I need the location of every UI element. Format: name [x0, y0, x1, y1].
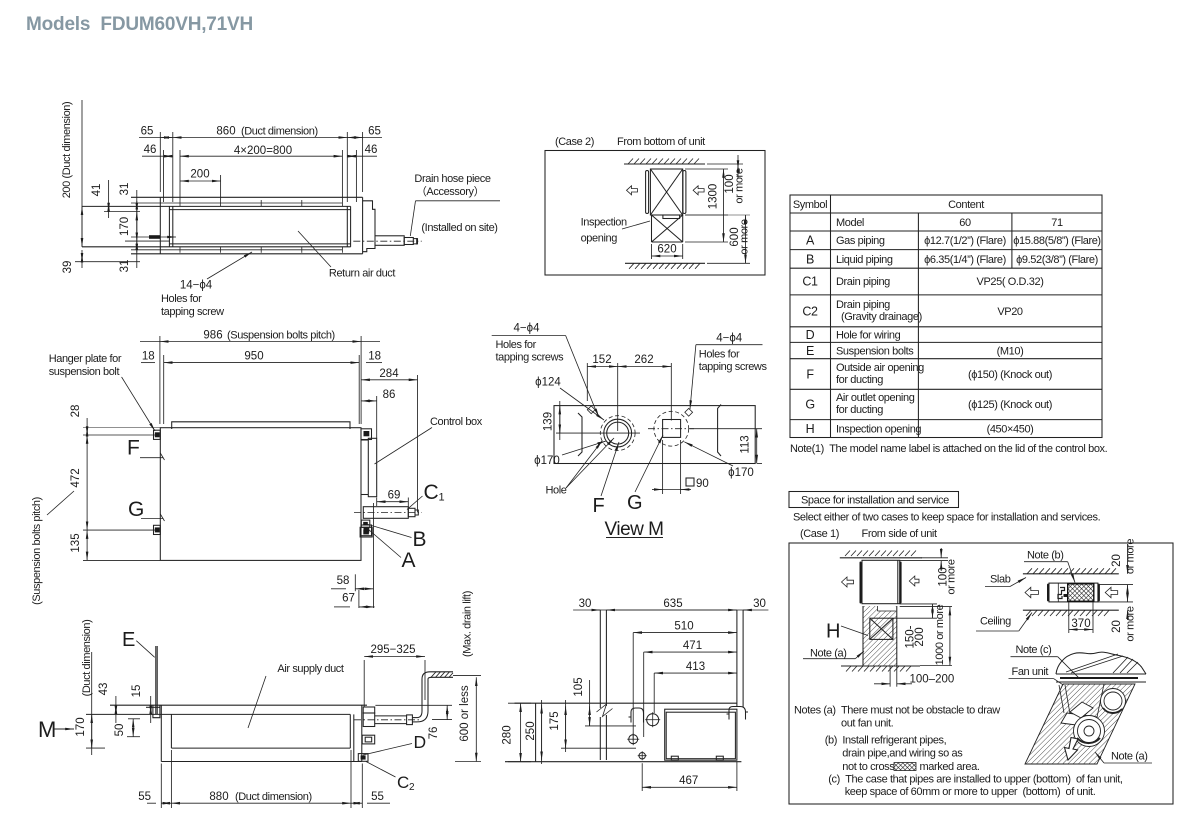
dim 950 and 18|18	[141, 355, 382, 424]
svg-text:50: 50	[114, 724, 126, 737]
svg-text:Content: Content	[948, 199, 984, 211]
svg-text:Hanger plate for: Hanger plate for	[49, 353, 122, 365]
svg-text:65: 65	[141, 126, 154, 138]
svg-text:152: 152	[592, 354, 611, 366]
svg-text:B: B	[806, 253, 814, 267]
svg-text:G: G	[128, 498, 144, 521]
hanger plate lower right	[361, 525, 372, 536]
svg-text:or more: or more	[734, 168, 746, 203]
svg-text:not to cross: not to cross	[842, 761, 895, 773]
svg-text:ϕ6.35(1/4”) (Flare): ϕ6.35(1/4”) (Flare)	[924, 254, 1006, 266]
label square 90	[652, 440, 691, 494]
case1: unit right bracket	[900, 563, 902, 603]
knockout circle small side	[639, 753, 645, 759]
svg-text:From bottom of unit: From bottom of unit	[617, 136, 705, 148]
svg-text:(M10): (M10)	[997, 346, 1024, 358]
suspension bolt E	[156, 646, 157, 714]
svg-text:600 or less: 600 or less	[459, 685, 471, 742]
svg-text:100–200: 100–200	[910, 674, 955, 686]
C1 drain pipe	[363, 507, 418, 519]
dim 113	[690, 429, 762, 464]
svg-text:tapping screws: tapping screws	[496, 352, 565, 364]
A knockout	[360, 527, 372, 537]
svg-text:31: 31	[119, 183, 131, 196]
svg-text:20: 20	[1111, 554, 1123, 567]
svg-text:139: 139	[543, 412, 555, 431]
svg-text:Drain piping: Drain piping	[836, 276, 890, 288]
svg-text:30: 30	[579, 598, 592, 610]
svg-text:E: E	[122, 629, 135, 651]
svg-text:drain pipe,and wiring so as: drain pipe,and wiring so as	[842, 747, 963, 759]
iso unit wavy top	[1056, 652, 1146, 674]
svg-text:（Accessory）: （Accessory）	[416, 185, 484, 198]
unit outline	[86, 705, 367, 761]
right flange step	[363, 201, 375, 252]
hanger bracket bottom view	[146, 705, 160, 718]
dim 67	[334, 503, 375, 608]
svg-text:39: 39	[62, 261, 74, 274]
ceiling hatch top	[624, 163, 705, 165]
iso fan deck	[1061, 713, 1097, 727]
svg-text:18: 18	[142, 351, 155, 363]
dim 58	[331, 574, 373, 591]
svg-text:Space for installation and ser: Space for installation and service	[801, 495, 949, 507]
dim 284	[361, 375, 417, 512]
bolt upper left	[155, 432, 160, 437]
dim 600 or less	[453, 676, 481, 762]
dim 100 or more case1	[900, 548, 948, 571]
svg-text:or more: or more	[1125, 539, 1137, 574]
drain exit bracket	[363, 707, 375, 713]
ceiling hatch line	[1023, 609, 1119, 611]
unit profile top	[515, 702, 737, 704]
svg-text:(Gravity drainage): (Gravity drainage)	[841, 311, 922, 323]
svg-text:950: 950	[244, 351, 263, 363]
extension for 170 dim	[86, 747, 105, 749]
insulation hatch on drain top pipe	[431, 672, 453, 678]
dim 200	[180, 175, 221, 200]
unit body rect	[160, 428, 361, 561]
svg-text:Air supply duct: Air supply duct	[277, 663, 343, 675]
top panel chamfer line	[172, 422, 350, 429]
svg-text:(Duct dimension): (Duct dimension)	[235, 791, 312, 803]
svg-text:471: 471	[683, 640, 702, 652]
dim 41	[104, 180, 140, 218]
G knockout dashed circle	[654, 411, 689, 446]
svg-text:G: G	[627, 492, 643, 514]
svg-text:C: C	[424, 481, 439, 504]
dim 370	[1069, 602, 1093, 633]
hanger plate lower left	[154, 525, 161, 534]
svg-text:View M: View M	[605, 519, 664, 540]
svg-text:200 (Duct dimension): 200 (Duct dimension)	[61, 102, 73, 199]
svg-text:ϕ15.88(5/8”) (Flare): ϕ15.88(5/8”) (Flare)	[1013, 235, 1100, 247]
svg-text:55: 55	[138, 791, 151, 803]
svg-text:tapping screws: tapping screws	[699, 361, 768, 373]
svg-text:20: 20	[1111, 620, 1123, 633]
svg-text:C1: C1	[802, 275, 818, 289]
dim column 31/170/31	[125, 190, 170, 268]
C1 pipe centerline	[354, 511, 422, 513]
dim 43	[115, 696, 117, 723]
drain centerline bottom view	[354, 719, 419, 721]
svg-text:C: C	[397, 773, 409, 792]
case1: unit left bracket	[860, 563, 862, 603]
F opening: double circle	[604, 419, 632, 447]
svg-text:(Suspension bolts pitch): (Suspension bolts pitch)	[227, 330, 335, 342]
dim row 65|860|65	[139, 132, 382, 202]
dim 1300	[685, 169, 728, 242]
F knockout dashed circle	[600, 416, 635, 451]
svg-text:Drain piping: Drain piping	[836, 299, 890, 311]
floor hatch bottom	[625, 262, 705, 264]
dim 100 or more	[707, 155, 743, 178]
svg-text:suspension bolt: suspension bolt	[49, 366, 120, 378]
svg-text:28: 28	[70, 405, 82, 418]
svg-text:510: 510	[674, 621, 693, 633]
svg-text:55: 55	[371, 791, 384, 803]
svg-text:VP25( O.D.32): VP25( O.D.32)	[977, 276, 1044, 288]
svg-text:A: A	[402, 549, 416, 572]
svg-text:F: F	[806, 368, 814, 382]
case1: airflow arrow mid	[909, 576, 919, 586]
svg-text:C2: C2	[802, 305, 818, 319]
dim row 30 635 30	[573, 609, 768, 611]
dim 15	[150, 696, 152, 723]
dim 170 bottom view	[91, 652, 93, 755]
svg-text:280: 280	[502, 725, 514, 744]
svg-text:46: 46	[144, 144, 157, 156]
svg-text:86: 86	[383, 389, 396, 401]
svg-text:4−ϕ4: 4−ϕ4	[716, 333, 743, 345]
svg-text:986: 986	[203, 330, 222, 342]
B knockout	[361, 520, 370, 527]
iso unit bar	[1056, 674, 1146, 682]
knockout circle F side	[647, 714, 659, 726]
airflow arrow right mini	[1105, 587, 1118, 597]
dim 76	[375, 705, 452, 719]
svg-text:(Case 2): (Case 2)	[555, 136, 594, 148]
svg-text:4−ϕ4: 4−ϕ4	[514, 323, 541, 335]
leader to drain pipe	[416, 200, 501, 202]
view M rectangle	[554, 406, 755, 464]
table grid	[790, 195, 1102, 438]
dim 600 or more	[685, 215, 750, 263]
svg-text:Holes for: Holes for	[161, 293, 202, 305]
svg-text:E: E	[806, 344, 814, 358]
svg-text:90: 90	[696, 478, 709, 490]
svg-text:Inspection: Inspection	[581, 217, 627, 229]
svg-text:65: 65	[368, 126, 381, 138]
svg-text:(ϕ150) (Knock out): (ϕ150) (Knock out)	[968, 369, 1052, 381]
dim 139	[556, 401, 640, 440]
svg-text:marked area.: marked area.	[920, 761, 980, 773]
svg-text:175: 175	[549, 711, 561, 730]
svg-text:(b) Install refrigerant pipes: (b) Install refrigerant pipes,	[825, 735, 947, 747]
dim 100-200	[874, 667, 912, 687]
svg-text:keep space of 60mm or more to: keep space of 60mm or more to upper (bot…	[845, 786, 1096, 798]
svg-text:413: 413	[686, 661, 705, 673]
svg-text:Suspension bolts: Suspension bolts	[836, 346, 914, 358]
dim 150-200	[893, 604, 937, 618]
svg-text:Models FDUM60VH,71VH: Models FDUM60VH,71VH	[26, 14, 253, 35]
svg-text:1000 or more: 1000 or more	[934, 604, 946, 665]
inspection crossed section	[652, 215, 683, 242]
svg-text:71: 71	[1051, 217, 1063, 229]
svg-text:69: 69	[388, 490, 401, 502]
svg-text:tapping screw: tapping screw	[161, 306, 224, 318]
drain pipe centerline	[353, 240, 421, 242]
svg-text:15: 15	[131, 685, 143, 698]
dim 50	[127, 719, 140, 737]
svg-text:620: 620	[657, 244, 676, 256]
svg-text:472: 472	[70, 468, 82, 487]
svg-text:Air outlet opening: Air outlet opening	[836, 392, 915, 404]
svg-text:H: H	[806, 422, 815, 436]
airflow arrow right	[693, 186, 704, 195]
svg-text:76: 76	[428, 727, 440, 740]
svg-text:4×200=800: 4×200=800	[234, 145, 292, 157]
svg-text:Inspection opening: Inspection opening	[836, 424, 921, 436]
svg-text:(c) The case that pipes are i: (c) The case that pipes are installed to…	[828, 774, 1123, 786]
knockout middle	[362, 735, 375, 744]
drain hose piece pipe	[375, 236, 418, 246]
svg-text:284: 284	[379, 368, 399, 380]
svg-text:or more: or more	[946, 559, 958, 594]
dim 250	[541, 700, 543, 764]
svg-text:105: 105	[573, 677, 585, 696]
svg-text:14−ϕ4: 14−ϕ4	[180, 280, 213, 292]
svg-text:67: 67	[342, 593, 355, 605]
svg-text:295−325: 295−325	[370, 644, 415, 656]
svg-text:Slab: Slab	[990, 574, 1011, 586]
svg-text:(Installed on site): (Installed on site)	[421, 222, 497, 234]
svg-text:Note (a): Note (a)	[1111, 751, 1148, 763]
svg-text:Note (a): Note (a)	[810, 648, 847, 660]
dim 413	[654, 673, 737, 713]
dim 152 and 262	[587, 363, 671, 431]
svg-text:out fan unit.: out fan unit.	[841, 718, 894, 730]
iso removal arrow	[1065, 738, 1079, 761]
svg-text:or more: or more	[1125, 606, 1137, 641]
svg-text:for ducting: for ducting	[836, 404, 883, 416]
case1: airflow arrow left	[842, 577, 854, 587]
knockout C2 D	[358, 754, 368, 762]
svg-text:43: 43	[98, 683, 110, 696]
svg-text:VP20: VP20	[997, 306, 1023, 318]
svg-text:135: 135	[70, 533, 82, 552]
svg-text:(Case 1): (Case 1)	[800, 528, 839, 540]
iso struts	[1059, 685, 1064, 713]
svg-text:Model: Model	[836, 217, 864, 229]
tapping hole mark right	[685, 408, 693, 416]
case1: inspection opening H box	[870, 618, 893, 639]
svg-text:41: 41	[91, 184, 103, 197]
svg-text:or more: or more	[739, 219, 751, 254]
drain pipe bottom view	[375, 672, 453, 725]
svg-text:Liquid piping: Liquid piping	[836, 254, 893, 266]
svg-text:From side of unit: From side of unit	[862, 528, 937, 540]
hanger plate upper right	[361, 429, 372, 440]
bottom dims 55|880|55	[147, 750, 390, 808]
bolt lower left	[155, 527, 160, 532]
unit profile bottom	[505, 761, 741, 763]
svg-text:200: 200	[190, 169, 209, 181]
dim 986 suspension bolts pitch	[140, 336, 380, 424]
svg-text:30: 30	[753, 598, 766, 610]
hole row top	[131, 203, 343, 250]
control box feet	[671, 756, 723, 760]
svg-text:Notes (a) There must not be o: Notes (a) There must not be obstacle to …	[794, 705, 1000, 717]
dim 472	[83, 435, 156, 530]
svg-text:ϕ170: ϕ170	[728, 467, 754, 479]
table header	[793, 199, 1101, 436]
case1: unit box	[862, 560, 900, 603]
svg-text:D: D	[414, 732, 427, 752]
right flange line	[718, 405, 721, 457]
svg-text:170: 170	[119, 217, 131, 236]
svg-text:60: 60	[959, 217, 971, 229]
svg-text:Note (c): Note (c)	[1016, 644, 1052, 656]
dim 86	[361, 396, 377, 438]
dim 28	[83, 418, 162, 444]
svg-text:ϕ12.7(1/2”) (Flare): ϕ12.7(1/2”) (Flare)	[924, 235, 1006, 247]
svg-text:Note (b): Note (b)	[1027, 550, 1064, 562]
control box side view	[665, 709, 737, 760]
svg-text:1: 1	[439, 492, 445, 504]
svg-text:Holes for: Holes for	[496, 339, 537, 351]
dim 20 or more bottom	[1098, 592, 1133, 620]
duct opening	[82, 206, 351, 246]
case1: duct collar notch	[878, 605, 896, 612]
svg-text:ϕ170: ϕ170	[534, 455, 560, 467]
control box	[361, 438, 377, 496]
svg-text:58: 58	[337, 575, 350, 587]
svg-text:Fan unit: Fan unit	[1012, 666, 1049, 678]
iso fan scroll big	[1074, 716, 1105, 747]
tapping hole mark left	[587, 406, 595, 414]
svg-text:860: 860	[216, 126, 235, 138]
G centerline	[648, 428, 694, 430]
svg-text:(Duct dimension): (Duct dimension)	[241, 126, 318, 138]
slab hatch line	[1023, 573, 1119, 575]
svg-text:Hole for wiring: Hole for wiring	[836, 330, 901, 342]
G square opening	[663, 420, 681, 438]
svg-text:H: H	[826, 621, 840, 643]
left flange line	[578, 413, 582, 456]
case1: hatched wall	[863, 606, 897, 666]
svg-text:250: 250	[525, 721, 537, 740]
unit outline	[131, 197, 363, 254]
svg-text:Return air duct: Return air duct	[329, 268, 395, 280]
svg-text:G: G	[805, 398, 814, 412]
svg-text:Ceiling: Ceiling	[980, 616, 1011, 628]
dim 471	[644, 652, 737, 737]
dim 510	[633, 633, 737, 741]
dim 69	[377, 498, 409, 509]
unit left section line	[535, 703, 537, 762]
svg-text:113: 113	[740, 435, 752, 453]
svg-text:Note(1) The model name label: Note(1) The model name label is attached…	[790, 443, 1108, 455]
dim 467	[642, 762, 737, 791]
suspension bolt column right	[737, 610, 743, 707]
svg-text:Outside air opening: Outside air opening	[836, 362, 924, 374]
hanger bracket curl right	[727, 707, 749, 720]
case1: floor hatch line	[841, 665, 920, 667]
svg-text:635: 635	[663, 598, 682, 610]
dim 105	[585, 680, 636, 726]
svg-text:Control box: Control box	[430, 416, 483, 428]
svg-text:262: 262	[634, 354, 653, 366]
hanger plate upper left	[154, 430, 161, 439]
dim 135	[83, 530, 160, 560]
svg-text:Drain hose piece: Drain hose piece	[414, 173, 490, 185]
svg-text:opening: opening	[581, 233, 618, 245]
svg-text:ϕ9.52(3/8”) (Flare): ϕ9.52(3/8”) (Flare)	[1016, 254, 1098, 266]
suspension bolt column left	[600, 610, 606, 760]
bolt break mark	[597, 704, 613, 717]
small airflow arrow in duct	[131, 236, 176, 238]
svg-text:for ducting: for ducting	[836, 374, 883, 386]
dim row 46|4x200=800|46	[142, 150, 377, 202]
svg-text:A: A	[806, 234, 815, 248]
dim 20 or more top	[1098, 544, 1133, 595]
svg-text:Select either of two cases to: Select either of two cases to keep space…	[793, 512, 1101, 524]
svg-text:170: 170	[75, 717, 87, 736]
svg-text:D: D	[806, 328, 815, 342]
svg-text:880: 880	[209, 791, 228, 803]
svg-text:46: 46	[365, 144, 378, 156]
svg-text:Gas piping: Gas piping	[836, 235, 885, 247]
svg-text:370: 370	[1071, 618, 1090, 630]
drain pipe flange	[363, 713, 375, 727]
unit side brackets	[646, 171, 649, 214]
svg-text:Holes for: Holes for	[699, 349, 740, 361]
svg-text:F: F	[127, 437, 140, 460]
mini unit with marked area	[1049, 583, 1098, 602]
svg-text:18: 18	[368, 351, 381, 363]
svg-text:B: B	[413, 528, 427, 551]
airflow arrow left	[627, 186, 638, 195]
svg-text:Hole: Hole	[545, 485, 566, 497]
section title box	[789, 492, 959, 508]
tapping screw holes (plus marks)	[180, 200, 342, 253]
section outer box	[789, 543, 1173, 804]
marked area crosshatch	[1068, 584, 1094, 602]
svg-text:200: 200	[914, 627, 926, 646]
svg-text:(Max. drain lift): (Max. drain lift)	[462, 591, 474, 657]
svg-text:1300: 1300	[708, 184, 720, 210]
dim 39	[75, 250, 140, 268]
dim 280	[508, 703, 531, 762]
knockout circle mid side	[629, 735, 638, 744]
dim 1000 or more	[900, 607, 952, 666]
dim 175	[561, 700, 636, 752]
svg-text:Symbol: Symbol	[793, 199, 827, 211]
svg-text:467: 467	[679, 775, 698, 787]
svg-text:2: 2	[409, 782, 415, 793]
unit crossed box	[650, 169, 682, 215]
svg-text:(Duct dimension): (Duct dimension)	[81, 620, 93, 697]
iso hatched band	[1025, 684, 1135, 764]
case1: ceiling hatch line	[840, 557, 922, 559]
iso fan scroll small	[1101, 689, 1126, 714]
hanger bracket curl left	[629, 708, 644, 723]
case 2 border box	[545, 151, 765, 276]
dim 620	[652, 244, 683, 259]
svg-text:M: M	[38, 717, 56, 742]
svg-text:ϕ124: ϕ124	[535, 377, 561, 389]
